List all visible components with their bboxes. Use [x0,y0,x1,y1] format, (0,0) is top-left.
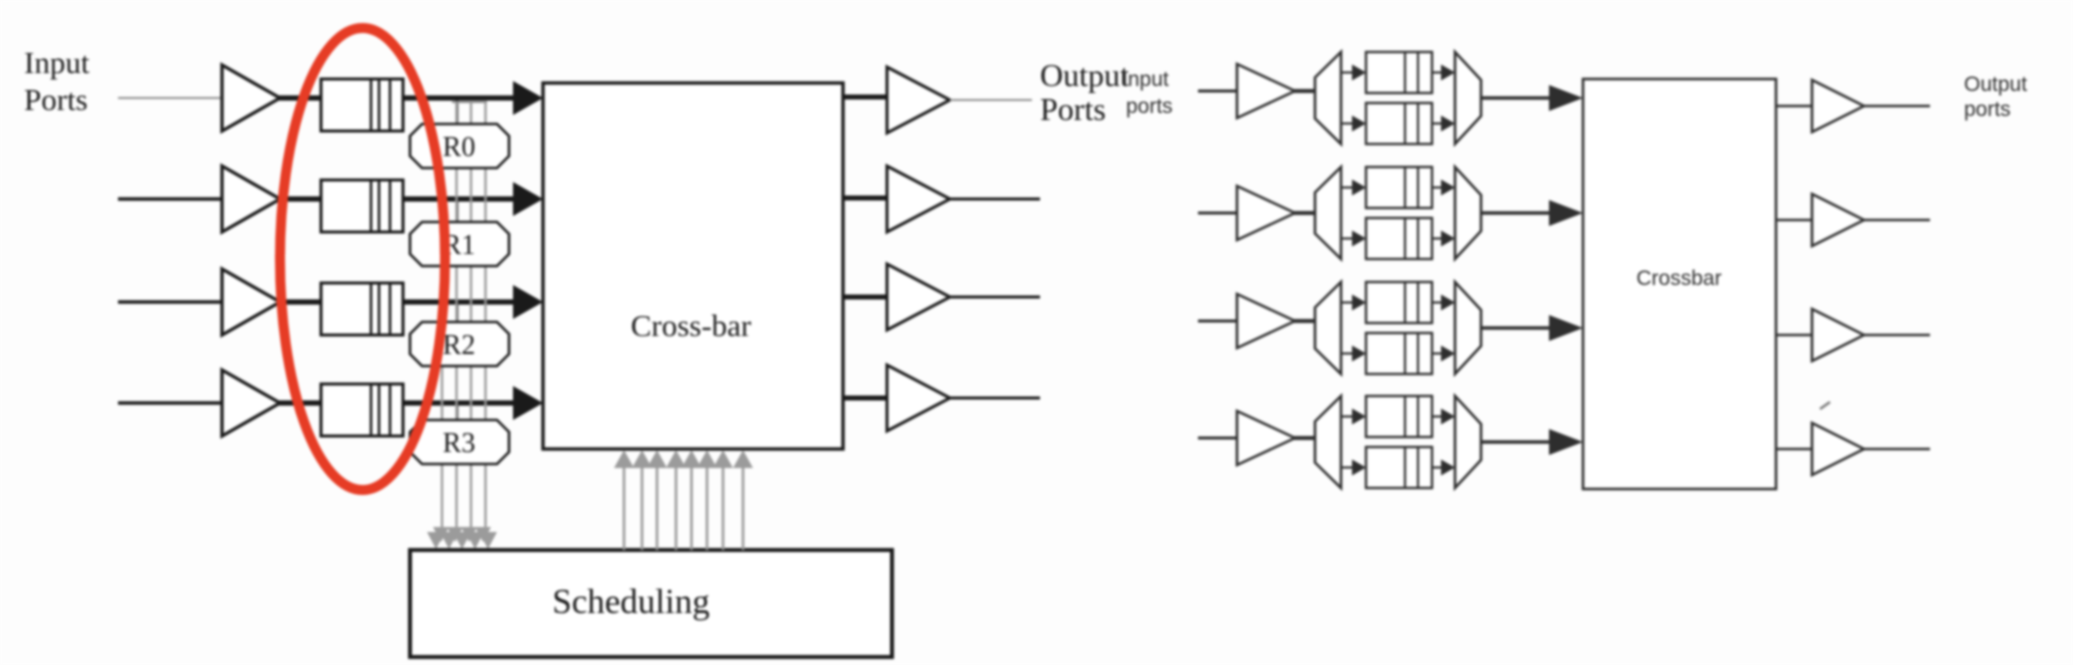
arrowhead: into multiplexer M3 (lower) [1441,346,1455,362]
wire: scheduler control line 8 to crossbar [742,468,745,550]
arrowhead: into multiplexer M2 (upper) [1441,180,1455,196]
wire: buffer C2 to demultiplexer [1294,211,1316,215]
output buffer amplifier E2 (right) [1812,194,1864,246]
arrowhead: request bus into scheduler (3) [453,532,471,549]
demultiplexer D4 [1315,396,1341,488]
wire: request bus line 1 to scheduler [441,167,443,528]
wire: mux M4 to crossbar [1481,440,1553,444]
FIFO queue Q1 [321,79,403,131]
arrowhead: into lower VOQ 1 [1352,116,1366,132]
wire: output line 1 [950,99,1032,101]
FIFO VOQ queue lower 4 [1366,447,1432,488]
wire: scheduler control line 5 to crossbar [690,468,693,550]
input buffer amplifier C4 (right) [1237,411,1295,465]
wire: mux M3 to crossbar [1481,326,1553,330]
arrowhead: into multiplexer M2 (lower) [1441,231,1455,247]
wire: request bus line 3 to scheduler [470,102,472,528]
svg-text:R0: R0 [443,132,476,163]
wire: lower VOQ 3 to multiplexer [1432,352,1443,354]
arrowhead: into lower VOQ 4 [1352,460,1366,476]
arrowhead: control line 1 into crossbar [614,450,634,468]
wire: right crossbar output tap 4 [1776,448,1813,451]
wire: scheduler control line 2 to crossbar [641,468,644,550]
arrowhead: FIFO 4 into crossbar [513,386,543,420]
arrowhead: into upper VOQ 2 [1352,180,1366,196]
wire: right crossbar output tap 1 [1776,105,1813,108]
wire: right input line 1 [1198,90,1238,93]
wire: crossbar output tap 3 [843,295,888,300]
wire: demux D1 to upper VOQ [1341,71,1354,73]
demultiplexer D2 [1315,167,1341,259]
wire: scheduler control line 3 to crossbar [656,468,659,550]
request module R3 [410,420,509,464]
arrowhead: FIFO 3 into crossbar [513,285,543,319]
wire: lower VOQ 2 to multiplexer [1432,237,1443,239]
wire: buffer C4 to demultiplexer [1294,436,1316,440]
wire: right input line 2 [1198,212,1238,215]
FIFO VOQ queue upper 2 [1366,167,1432,208]
arrowhead: request bus into scheduler (2) [440,532,458,549]
wire: upper VOQ 2 to multiplexer [1432,186,1443,188]
wire: right output line 4 [1864,448,1930,451]
wire: upper VOQ 4 to multiplexer [1432,415,1443,417]
input buffer amplifier A3 [222,269,280,335]
wire: input line 1 [118,97,222,99]
output buffer amplifier B4 [887,365,950,431]
wire: request bus line 2 to scheduler [455,102,457,528]
wire: crossbar output tap 2 [843,196,888,201]
svg-text:Ports: Ports [24,82,88,117]
wire: output line 4 [950,397,1040,400]
arrowhead: FIFO 1 into crossbar [513,81,543,115]
output buffer amplifier E4 (right) [1812,423,1864,475]
arrowhead: control line 6 into crossbar [697,450,717,468]
arrowhead: control line 4 into crossbar [666,450,686,468]
wire: buffer 4 to FIFO 4 and through to crossbar arrow [279,400,517,405]
arrowhead: request bus into scheduler (back row 4) [475,527,491,542]
wire: buffer 3 to FIFO 3 and through to crossbar arrow [279,299,517,304]
svg-text:Input: Input [24,45,90,80]
svg-text:R3: R3 [443,428,476,459]
FIFO VOQ queue upper 3 [1366,282,1432,323]
arrowhead: into upper VOQ 3 [1352,295,1366,311]
wire: buffer 1 to FIFO 1 and through to crossbar arrow [279,95,517,100]
arrowhead: into multiplexer M3 (upper) [1441,295,1455,311]
input buffer amplifier A2 [222,166,280,232]
wire: mux M2 to crossbar [1481,211,1553,215]
wire: output line 3 [950,296,1040,299]
wire: demux D4 to upper VOQ [1341,415,1354,417]
label: Output ports (right diagram) [1964,73,2027,121]
FIFO VOQ queue lower 3 [1366,333,1432,374]
arrowhead: control line 2 into crossbar [632,450,652,468]
svg-text:ports: ports [1964,98,2011,121]
crossbar switch U1 (left) [543,83,843,449]
label: Output Ports (left diagram) [1040,57,1129,127]
svg-text:Output: Output [1964,73,2027,96]
arrowhead: FIFO 2 into crossbar [513,182,543,216]
wire: demux D3 to lower VOQ [1341,352,1354,354]
wire: demux D3 to upper VOQ [1341,301,1354,303]
FIFO VOQ queue lower 2 [1366,218,1432,259]
arrowhead: control line 5 into crossbar [682,450,702,468]
arrowhead: mux M1 into crossbar [1549,85,1583,111]
request module R1 [410,222,509,266]
wire: demux D1 to lower VOQ [1341,122,1354,124]
arrowhead: mux M3 into crossbar [1549,315,1583,341]
wire: output line 2 [950,198,1040,201]
request module R2 [410,322,509,366]
wire: right input line 4 [1198,437,1238,440]
wire: scheduler control line 1 to crossbar [623,468,626,550]
wire: demux D2 to lower VOQ [1341,237,1354,239]
arrowhead: into multiplexer M1 (lower) [1441,116,1455,132]
FIFO queue Q4 [321,384,403,436]
svg-text:ports: ports [1126,95,1173,118]
input buffer amplifier C2 (right) [1237,186,1295,240]
arrowhead: request bus into scheduler (back row 2) [447,527,463,542]
arrowhead: request bus into scheduler (back row 1) [433,527,449,542]
input buffer amplifier C3 (right) [1237,294,1295,348]
wire: lower VOQ 1 to multiplexer [1432,122,1443,124]
wire: demux D2 to upper VOQ [1341,186,1354,188]
multiplexer M1 [1455,52,1481,144]
wire: mux M1 to crossbar [1481,96,1553,100]
wire: crossbar output tap 4 [843,396,888,401]
arrowhead: control line 8 into crossbar [733,450,753,468]
wire: demux D4 to lower VOQ [1341,466,1354,468]
arrowhead: control line 7 into crossbar [713,450,733,468]
svg-text:Crossbar: Crossbar [1636,267,1721,290]
wire: tap from line 1 down to request module R0 [456,98,459,128]
arrowhead: into multiplexer M4 (upper) [1441,409,1455,425]
wire: tap from line 2 down to request module R1 [456,199,459,226]
demultiplexer D1 [1315,52,1341,144]
svg-text:Ports: Ports [1040,91,1106,127]
wire: request bus horizontal stub under line 1 [452,101,487,103]
wire: right crossbar output tap 3 [1776,334,1813,337]
output buffer amplifier B2 [887,166,950,232]
wire: right output line 1 [1864,105,1930,108]
svg-text:Scheduling: Scheduling [552,582,709,621]
wire: upper VOQ 1 to multiplexer [1432,71,1443,73]
arrowhead: mux M4 into crossbar [1549,429,1583,455]
arrowhead: request bus into scheduler (1) [427,532,445,549]
wire: tap from line 3 down to request module R2 [456,302,459,326]
svg-text:Cross-bar: Cross-bar [631,308,752,343]
wire: right input line 3 [1198,320,1238,323]
svg-text:R2: R2 [443,330,476,361]
arrowhead: into multiplexer M1 (upper) [1441,65,1455,81]
wire: right output line 2 [1864,219,1930,222]
arrowhead: into upper VOQ 4 [1352,409,1366,425]
input buffer amplifier A4 [222,370,280,436]
multiplexer M3 [1455,282,1481,374]
artifact tick mark near output buffer E4 [1820,402,1830,409]
wire: scheduler control line 6 to crossbar [706,468,709,550]
wire: upper VOQ 3 to multiplexer [1432,301,1443,303]
demultiplexer D3 [1315,282,1341,374]
wire: right output line 3 [1864,334,1930,337]
wire: lower VOQ 4 to multiplexer [1432,466,1443,468]
output buffer amplifier E1 (right) [1812,80,1864,132]
FIFO VOQ queue lower 1 [1366,103,1432,144]
output buffer amplifier B1 [887,67,950,133]
request module R0 [410,124,509,168]
arrowhead: control line 3 into crossbar [647,450,667,468]
wire: buffer 2 to FIFO 2 and through to crossbar arrow [279,196,517,201]
FIFO VOQ queue upper 4 [1366,396,1432,437]
annotation: red ellipse around FIFO queues [280,28,445,490]
scheduler box U2 [410,550,892,657]
arrowhead: request bus into scheduler (4) [466,532,484,549]
wire: crossbar output tap 1 [843,95,888,100]
output buffer amplifier B3 [887,264,950,330]
svg-text:Input: Input [1122,68,1169,91]
arrowhead: request bus into scheduler (5) [479,532,497,549]
wire: input line 3 [118,300,222,304]
label: Input ports (right diagram) [1122,68,1173,118]
wire: request bus line 4 to scheduler [484,102,486,528]
arrowhead: into upper VOQ 1 [1352,65,1366,81]
multiplexer M2 [1455,167,1481,259]
arrowhead: mux M2 into crossbar [1549,200,1583,226]
FIFO queue Q3 [321,283,403,335]
input buffer amplifier C1 (right) [1237,64,1295,118]
svg-text:Output: Output [1040,57,1129,93]
arrowhead: into multiplexer M4 (lower) [1441,460,1455,476]
input buffer amplifier A1 [222,65,280,131]
wire: buffer C1 to demultiplexer [1294,89,1316,93]
output buffer amplifier E3 (right) [1812,309,1864,361]
label: Input Ports (left diagram) [24,45,90,117]
arrowhead: request bus into scheduler (back row 3) [461,527,477,542]
wire: input line 4 [118,401,222,405]
arrowhead: into lower VOQ 3 [1352,346,1366,362]
arrowhead: into lower VOQ 2 [1352,231,1366,247]
wire: tap from line 4 down to request module R3 [456,403,459,424]
wire: input line 2 [118,197,222,201]
wire: right crossbar output tap 2 [1776,219,1813,222]
multiplexer M4 [1455,396,1481,488]
FIFO VOQ queue upper 1 [1366,52,1432,93]
wire: scheduler control line 7 to crossbar [722,468,725,550]
crossbar switch U3 (right) [1583,79,1776,489]
FIFO queue Q2 [321,180,403,232]
wire: buffer C3 to demultiplexer [1294,319,1316,323]
wire: scheduler control line 4 to crossbar [675,468,678,550]
